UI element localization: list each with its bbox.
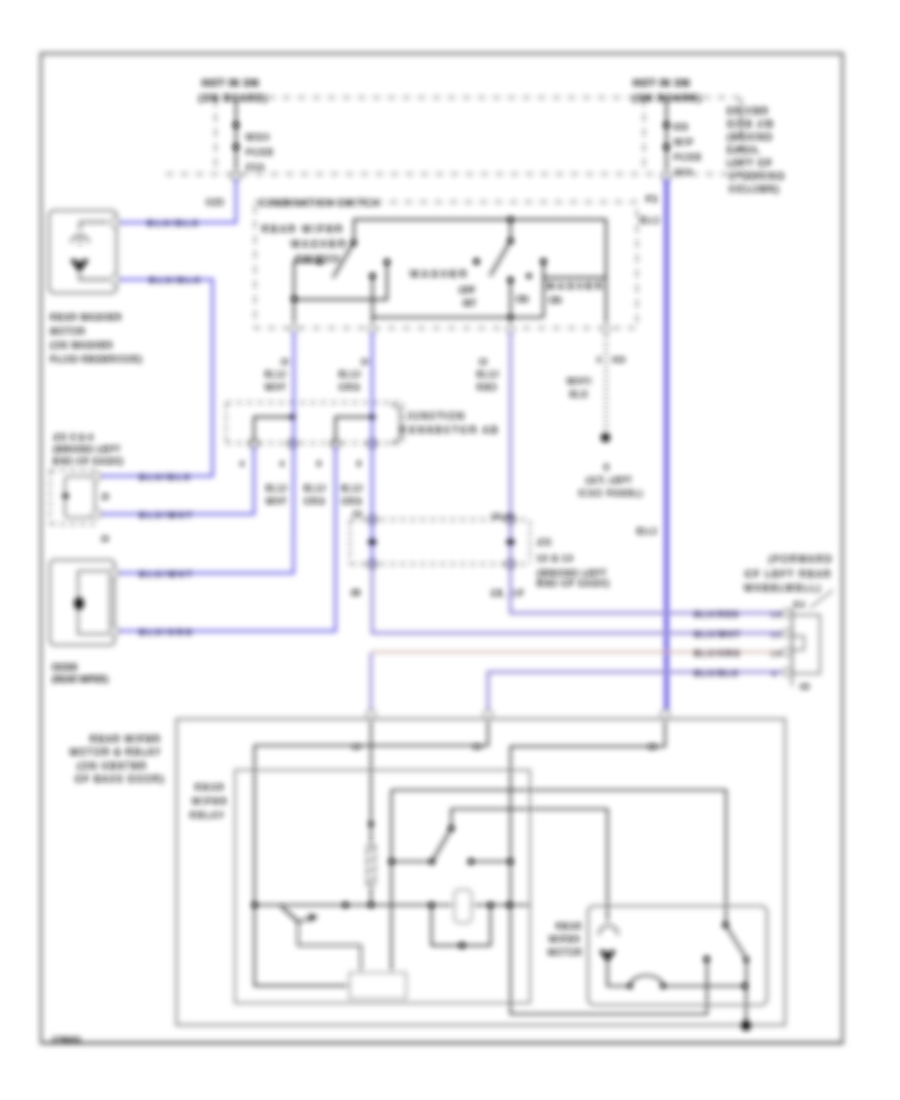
fuse WSH 20A	[233, 99, 275, 174]
svg-text:WSH: WSH	[246, 132, 270, 142]
svg-text:I12: I12	[353, 511, 362, 518]
wire BLU from WSH fuse to rear washer motor pin 1	[118, 178, 236, 223]
svg-text:MOTOR: MOTOR	[548, 948, 583, 957]
svg-text:BLU/BLK: BLU/BLK	[139, 472, 192, 482]
wire BLU/ORG switch through J/C 12&14 to rear connector (wire 2)	[371, 331, 374, 564]
svg-text:OF BACK DOOR): OF BACK DOOR)	[75, 774, 165, 784]
label REAR WIPER MOTOR & RELAY location	[70, 734, 165, 784]
switch pin half-circles on dashed border	[290, 325, 610, 333]
svg-text:ORG: ORG	[339, 383, 361, 392]
svg-text:MOTOR & RELAY: MOTOR & RELAY	[70, 747, 161, 757]
svg-text:(BEHIND LEFT: (BEHIND LEFT	[53, 444, 121, 454]
feed line across relay box top	[391, 790, 726, 925]
svg-text:DIODE: DIODE	[52, 663, 77, 672]
svg-text:BLU/: BLU/	[339, 370, 362, 379]
svg-text:10: 10	[281, 359, 289, 366]
svg-text:4: 4	[772, 671, 778, 678]
svg-text:BLU/BLK: BLU/BLK	[147, 218, 200, 228]
svg-text:BLU/: BLU/	[341, 484, 364, 493]
svg-text:LEFT OF: LEFT OF	[727, 158, 773, 168]
svg-text:HOT IN ON: HOT IN ON	[202, 78, 259, 89]
motor armature wire with hump	[608, 963, 746, 987]
svg-text:HOT IN ON: HOT IN ON	[633, 78, 690, 89]
relay coil L1 on pin 1A branch	[366, 719, 376, 905]
svg-text:10: 10	[361, 359, 369, 366]
ground node on case	[741, 1020, 751, 1030]
ground splice 6	[601, 433, 610, 442]
svg-text:C20: C20	[206, 197, 224, 207]
svg-text:16: 16	[771, 612, 783, 619]
motor park switch	[722, 922, 728, 928]
svg-text:COMBINATION SWITCH: COMBINATION SWITCH	[259, 198, 380, 208]
svg-text:WIP: WIP	[674, 137, 694, 147]
svg-text:(A/T, LEFT: (A/T, LEFT	[586, 476, 632, 485]
label FORWARD OF LEFT REAR WHEELWELL	[744, 554, 833, 593]
svg-text:WHT: WHT	[266, 497, 288, 506]
svg-text:4: 4	[280, 461, 284, 468]
svg-text:(ON BOARD): (ON BOARD)	[633, 93, 702, 103]
wire pin 2A to transistor branch	[255, 719, 489, 986]
park switch blade output to ground	[745, 959, 748, 1026]
svg-text:STEERING: STEERING	[729, 171, 785, 181]
row junction nodes	[251, 902, 257, 908]
svg-text:BLU/: BLU/	[477, 370, 500, 379]
svg-text:FUSE: FUSE	[674, 152, 702, 162]
svg-text:J3: J3	[101, 494, 109, 501]
wire BLU/WHT switch to junction connector col2 and diode pin 1	[118, 331, 294, 573]
svg-text:KICK PANEL): KICK PANEL)	[579, 489, 644, 498]
washer switch SW3 (right)	[373, 258, 607, 320]
J/C 12&14 connector	[350, 511, 530, 598]
svg-text:WASHER: WASHER	[546, 281, 605, 292]
wire RED thin from relay pin 1A to rear connector (wire 3)	[370, 653, 373, 711]
wire BLU/RED washer switch down through J/C 12&14 to rear connector (wire 1)	[511, 331, 787, 613]
relay common to motor line	[451, 809, 607, 921]
combination switch dashed box	[255, 202, 637, 328]
wiper on-off switch SW2 (center)	[473, 220, 513, 329]
svg-text:OF LEFT REAR: OF LEFT REAR	[745, 569, 832, 579]
svg-text:CONNECTOR AB: CONNECTOR AB	[400, 425, 499, 435]
svg-text:REAR WIPER: REAR WIPER	[262, 224, 344, 235]
svg-text:BLU/WHT: BLU/WHT	[139, 569, 194, 579]
rear wiper relay inner box	[235, 770, 530, 1003]
svg-text:1B: 1B	[648, 744, 657, 751]
diode (rear wiper) D1	[50, 560, 118, 645]
svg-text:REAR WIPER: REAR WIPER	[90, 734, 161, 744]
svg-text:WASHER: WASHER	[291, 239, 348, 250]
svg-text:RED: RED	[477, 383, 498, 392]
pin 2A	[484, 710, 493, 719]
svg-text:(ON CENTER: (ON CENTER	[77, 761, 147, 771]
label REAR WASHER MOTOR	[50, 312, 142, 364]
svg-text:(FORWARD: (FORWARD	[769, 554, 833, 564]
svg-text:REAR: REAR	[195, 782, 225, 792]
svg-text:JUNCTION: JUNCTION	[407, 411, 465, 421]
svg-text:REAR WASHER: REAR WASHER	[50, 312, 122, 322]
svg-text:WHEELWELL): WHEELWELL)	[744, 583, 822, 593]
internal bus bracket col1-col2	[254, 417, 293, 441]
svg-text:P2: P2	[646, 194, 658, 204]
svg-text:BLU/ORG: BLU/ORG	[139, 627, 194, 637]
label DRIVER SIDE J/B location	[727, 106, 785, 194]
J/C 3&4 connector	[50, 470, 109, 543]
svg-text:(BEHIND LEFT: (BEHIND LEFT	[537, 568, 607, 578]
svg-text:WIPER: WIPER	[549, 935, 580, 944]
svg-text:END OF DASH): END OF DASH)	[537, 578, 610, 588]
rear washer motor M1	[49, 211, 119, 294]
wire BLU from washer motor pin 2 to J/C 3&4 pin J3	[101, 280, 213, 477]
svg-text:12 & 14: 12 & 14	[537, 553, 573, 563]
wiper motor nozzle symbol	[599, 926, 618, 936]
relay contact row	[391, 861, 510, 863]
svg-text:WIPER: WIPER	[192, 796, 228, 806]
motor feed vertical from relay contact	[390, 790, 392, 973]
junction block J/B dashed outline	[166, 98, 742, 175]
ground wire WHT/BLK from washer switch	[605, 333, 607, 434]
svg-text:178031: 178031	[52, 1035, 82, 1044]
svg-text:BLU/BLK: BLU/BLK	[694, 669, 740, 678]
relay main internal row	[255, 904, 531, 906]
wire BLU purple from relay pin 2A to rear connector (wire 4)	[488, 672, 786, 711]
svg-text:I14, I15: I14, I15	[492, 513, 514, 520]
svg-text:DASH,: DASH,	[727, 145, 761, 155]
relay switch blade	[432, 829, 451, 862]
svg-text:BLU: BLU	[637, 526, 658, 536]
svg-text:FUSE: FUSE	[246, 147, 274, 157]
rear wiper motor & relay outer box	[177, 719, 786, 1025]
svg-text:FLUID RESERVOIR): FLUID RESERVOIR)	[50, 354, 142, 364]
svg-text:BLU/: BLU/	[304, 484, 327, 493]
svg-text:ORG: ORG	[341, 497, 363, 506]
svg-text:C9: C9	[800, 684, 809, 691]
connector ring contacts	[249, 439, 376, 448]
svg-text:C10: C10	[612, 357, 625, 364]
wire BLU feed from RR WIP fuse down to relay pin 1B	[664, 178, 668, 712]
svg-text:20A: 20A	[674, 167, 693, 177]
node bus junction	[507, 216, 513, 222]
internal bus bracket col3-col4	[336, 417, 373, 441]
connector C20 half-circle at J/B exit	[232, 172, 241, 181]
svg-text:SIDE J/B: SIDE J/B	[727, 119, 774, 129]
svg-text:END OF DASH): END OF DASH)	[53, 456, 124, 466]
wire BLU from J/C AB col3 to diode pin 2	[118, 447, 336, 631]
wiper motor pump symbol	[599, 951, 616, 963]
svg-text:J4: J4	[101, 536, 109, 543]
svg-text:ON: ON	[549, 296, 561, 305]
svg-text:8: 8	[357, 461, 361, 468]
svg-text:WHT: WHT	[265, 383, 287, 392]
svg-text:WHT/: WHT/	[567, 377, 592, 386]
svg-text:6: 6	[604, 462, 609, 472]
svg-text:2: 2	[597, 357, 601, 364]
svg-text:INT: INT	[463, 299, 476, 308]
svg-text:(ON WASHER: (ON WASHER	[50, 340, 113, 350]
svg-text:4: 4	[240, 461, 244, 468]
fuse RR WIP 20A	[663, 99, 702, 177]
svg-text:BLU/: BLU/	[265, 370, 288, 379]
resistor R1 box	[350, 973, 406, 999]
wire color labels below junction connector AB	[266, 484, 364, 506]
svg-text:ON: ON	[516, 295, 528, 304]
svg-text:BLU/RED: BLU/RED	[694, 610, 740, 619]
connector P2 half-circle at J/B exit	[662, 172, 671, 181]
svg-text:B 2: B 2	[794, 602, 805, 609]
junction connector AB	[226, 403, 403, 469]
svg-text:BLK: BLK	[570, 390, 589, 399]
svg-text:DRIVER: DRIVER	[727, 106, 769, 116]
svg-text:20A: 20A	[246, 162, 265, 172]
svg-text:OFF: OFF	[459, 286, 475, 295]
svg-text:BLU/: BLU/	[266, 484, 289, 493]
svg-text:BLU/WHT: BLU/WHT	[139, 510, 194, 520]
wire pin 1B internal feed	[511, 719, 708, 1014]
svg-text:BLU/BLK: BLU/BLK	[149, 275, 202, 285]
pin 1B	[661, 710, 670, 719]
zener element on row	[455, 890, 472, 923]
svg-text:J/C: J/C	[537, 537, 552, 547]
svg-text:(BEHIND: (BEHIND	[727, 132, 773, 142]
svg-text:RELAY: RELAY	[190, 810, 225, 820]
svg-text:RR: RR	[674, 122, 689, 132]
washer pump symbol	[70, 260, 89, 273]
svg-text:REAR: REAR	[556, 922, 582, 931]
svg-text:11: 11	[771, 632, 783, 639]
washer nozzle symbol	[80, 222, 108, 231]
label JUNCTION CONNECTOR AB leader bracket	[391, 404, 400, 445]
switch internal bus wire	[354, 220, 606, 330]
rear harness connector (forward of left rear wheelwell)	[783, 590, 833, 691]
transistor Q1	[281, 906, 361, 973]
pin 1A	[367, 710, 376, 719]
svg-text:WASHER: WASHER	[410, 269, 469, 280]
svg-text:BLU: BLU	[640, 215, 661, 225]
svg-text:BLU/WHT: BLU/WHT	[694, 630, 741, 639]
svg-text:16: 16	[771, 651, 783, 658]
svg-text:MOTOR: MOTOR	[50, 326, 85, 336]
svg-text:ORG: ORG	[304, 497, 326, 506]
svg-text:2B: 2B	[351, 588, 360, 597]
zener loop below row	[432, 905, 491, 945]
rear wiper motor M2 box	[588, 906, 767, 1005]
svg-text:8: 8	[317, 461, 321, 468]
rear wiper switch SW1 (left)	[291, 240, 390, 328]
svg-text:(REAR WIPER): (REAR WIPER)	[52, 675, 108, 684]
svg-text:2E, 2F: 2E, 2F	[491, 589, 525, 598]
wire BLU from J/C AB col1 to J/C 3&4 pin J4	[101, 447, 254, 514]
svg-text:(ON BOARD): (ON BOARD)	[199, 93, 268, 103]
svg-text:J/C 3 & 4: J/C 3 & 4	[53, 432, 93, 442]
svg-text:10: 10	[479, 359, 487, 366]
svg-text:BLU/ORG: BLU/ORG	[694, 649, 741, 658]
svg-text:COLUMN): COLUMN)	[729, 184, 780, 194]
